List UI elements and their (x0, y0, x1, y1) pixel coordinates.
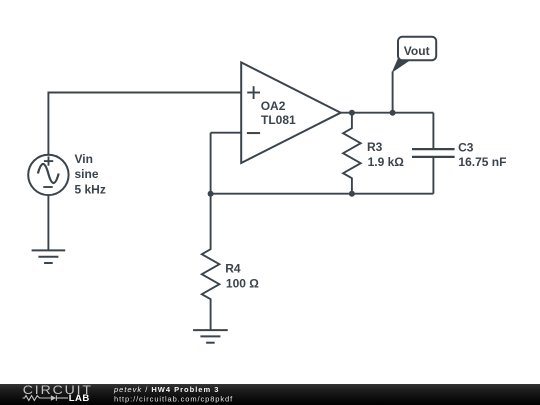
wire: Vin top to op-amp non-inverting input (48, 93, 241, 155)
resistor R4 (202, 194, 220, 330)
footer bar (0, 384, 540, 405)
label C3 16.75 nF (458, 140, 506, 169)
svg-text:R4: R4 (225, 261, 241, 275)
voltage source V1 Vin (28, 155, 68, 195)
svg-text:C3: C3 (458, 140, 474, 154)
label OA2 TL081 (261, 99, 296, 127)
op-amp U1 OA2 TL081 (241, 62, 341, 163)
wire: output rail (341, 112, 434, 114)
svg-text:TL081: TL081 (261, 113, 296, 127)
capacitor C3 (412, 113, 455, 194)
node: R3 bottom junction (349, 191, 355, 197)
svg-text:Vout: Vout (404, 44, 430, 58)
svg-text:http://circuitlab.com/cp8pkdf: http://circuitlab.com/cp8pkdf (114, 394, 233, 403)
svg-text:sine: sine (75, 167, 99, 181)
svg-text:petevk / HW4 Problem 3: petevk / HW4 Problem 3 (113, 385, 219, 394)
label R4 100 Ohm (225, 261, 259, 290)
svg-text:1.9 kΩ: 1.9 kΩ (368, 155, 405, 169)
wire: Vin bottom to ground (47, 195, 49, 250)
svg-text:LAB: LAB (69, 393, 90, 404)
net flag Vout (392, 37, 437, 73)
footer credit text (113, 385, 233, 403)
svg-text:OA2: OA2 (261, 99, 286, 113)
svg-text:100 Ω: 100 Ω (226, 276, 259, 290)
ground below Vin (32, 250, 66, 263)
wire: inverting input stub (211, 132, 242, 134)
wire: bottom rail (211, 193, 434, 195)
wire: Vout tap (392, 72, 394, 113)
label R3 1.9 kOhm (367, 140, 404, 169)
svg-text:16.75 nF: 16.75 nF (458, 155, 506, 169)
ground below R4 (193, 330, 228, 343)
svg-text:5 kHz: 5 kHz (75, 183, 106, 197)
node: feedback R4 junction (208, 191, 214, 197)
label Vin sine 5 kHz (75, 152, 106, 197)
node: op-amp output junction (349, 110, 355, 116)
node: Vout tap junction (390, 110, 396, 116)
svg-text:Vin: Vin (75, 152, 93, 166)
svg-text:R3: R3 (367, 140, 383, 154)
resistor R3 (343, 113, 361, 194)
wire: feedback vertical (210, 133, 212, 194)
CircuitLab logo (23, 383, 93, 404)
